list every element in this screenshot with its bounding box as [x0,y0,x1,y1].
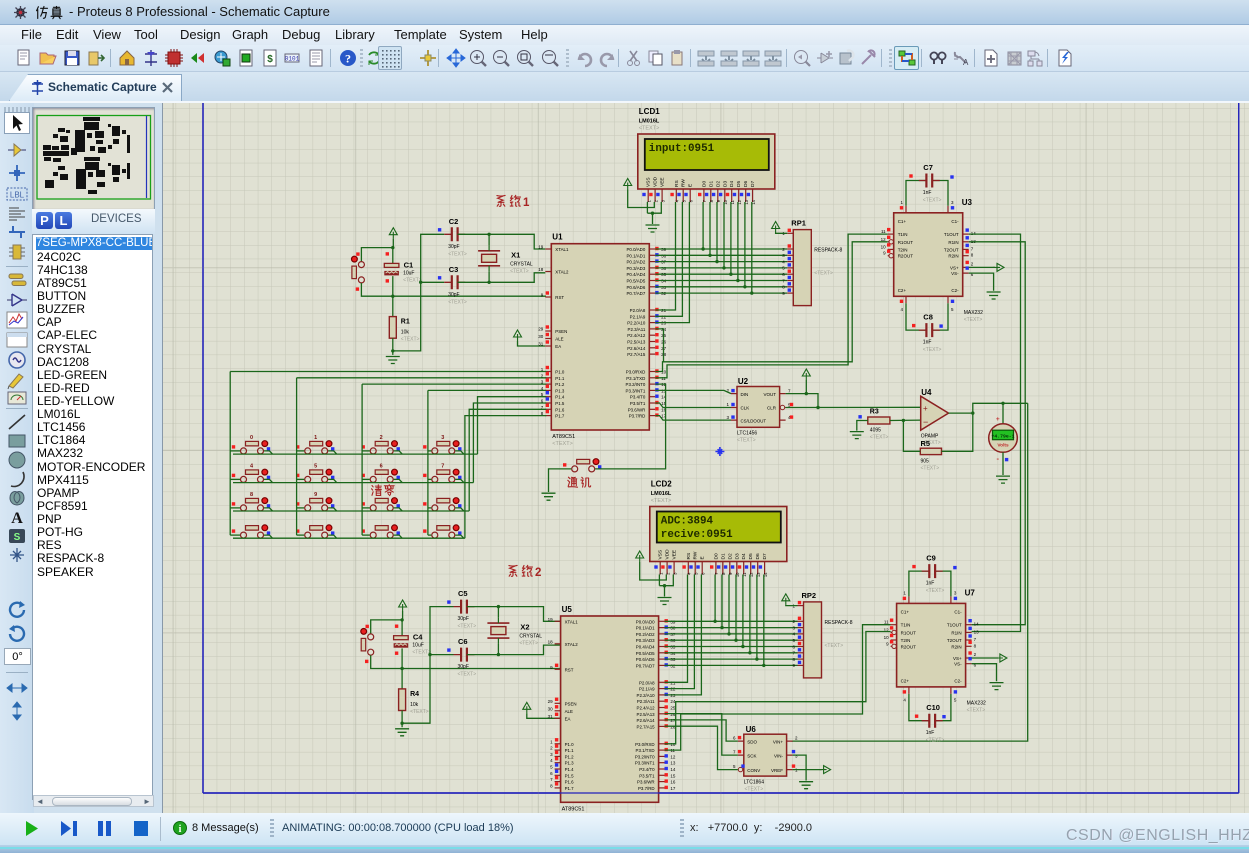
svg-text:−: − [923,417,928,427]
svg-text:D7: D7 [750,181,756,187]
wire key r1c3 left [362,450,370,452]
wire U5 P2.7 to U6 CONV [665,726,738,769]
wire C8 right [932,303,948,330]
wire LCD1 VDD [628,190,655,208]
wire key r4c3 left [362,534,370,536]
wire button bottom sys2 [371,655,402,668]
wire C10 right [935,694,951,721]
mcu U5 AT89C51 [548,605,676,819]
svg-text:LM016L: LM016L [651,491,672,497]
svg-text:VS-: VS- [951,271,959,276]
svg-text:13: 13 [670,761,676,766]
button keypad r1c3 [362,435,400,454]
svg-text:P1.7: P1.7 [555,414,565,419]
svg-text:P2.5/A13: P2.5/A13 [627,340,646,345]
svg-text:P2.5/A13: P2.5/A13 [637,712,656,717]
svg-text:P3.4/T0: P3.4/T0 [630,395,646,400]
svg-text:i: i [179,824,182,835]
wire C7 left [906,181,926,206]
svg-text:SDO: SDO [747,739,757,744]
wire P0.4 bus1 [655,273,787,275]
wire key r2c4 left [428,478,432,480]
wire vcc to junction sys2 [402,611,404,620]
wire C2 right sys2 [467,607,564,622]
svg-text:CS/LDOOUT: CS/LDOOUT [741,418,767,423]
junction D3 bus1 [722,266,725,269]
svg-text:+: + [996,416,1000,423]
svg-text:D4: D4 [741,553,747,559]
button keypad r1c1 [232,435,270,454]
svg-text:29: 29 [538,327,544,332]
wire C bottom sys1 [392,276,394,296]
wire key r3c3 right [394,508,403,511]
wire key r3c2 left [297,507,305,509]
button reset sys1 [352,252,365,290]
power vcc LCD1 [624,179,632,190]
wire xtal bottom sys2 [497,644,499,655]
ic U3 MAX232 [881,198,983,323]
svg-text:<TEXT>: <TEXT> [639,126,659,132]
svg-text:P2.7/A15: P2.7/A15 [627,352,646,357]
svg-text:P2.1/A9: P2.1/A9 [630,314,646,319]
wire key r3c2 right [328,508,337,511]
devices header [32,209,155,234]
svg-text:U7: U7 [965,588,976,597]
svg-text:D1: D1 [708,181,714,187]
wire U1 P3.5 to U2 CLK [655,403,731,408]
svg-text:<TEXT>: <TEXT> [519,641,538,647]
status bar [0,813,1249,845]
svg-text:P1.2: P1.2 [565,754,575,759]
R3 blue square [858,415,861,418]
wire LCD1 D4 [730,202,732,274]
voltmeter [989,416,1018,463]
capacitor C10 [915,703,944,744]
left tool column [0,103,34,815]
svg-text:X1: X1 [511,250,520,259]
ground LCD1 [646,225,660,232]
junction [400,618,403,621]
junction D5 bus1 [736,279,739,282]
wire out to U6 VIN+ [792,403,1028,741]
ground U6 VIN- [799,782,813,789]
svg-text:10: 10 [881,244,887,249]
svg-text:<TEXT>: <TEXT> [923,198,942,204]
wire opamp out [949,412,973,414]
svg-text:VS-: VS- [954,662,962,667]
svg-text:RS: RS [674,180,680,187]
wire P0.1 bus1 [655,254,787,256]
svg-text:MAX232: MAX232 [967,700,986,706]
junction [651,212,654,215]
ground R3 [850,432,864,439]
svg-text:P2.0/A8: P2.0/A8 [639,680,655,685]
svg-text:4095: 4095 [870,428,881,434]
svg-text:EA: EA [565,716,571,721]
wire LCD1 VEE [647,202,661,213]
mcu U1 AT89C51 [538,233,666,447]
svg-text:U1: U1 [552,233,563,242]
wire LCD1 gnd stem [652,213,654,224]
svg-text:19: 19 [548,617,554,622]
svg-text:C2-: C2- [954,678,962,683]
svg-text:RST: RST [555,295,564,300]
capacitor C5 [447,589,476,630]
svg-text:T1OUT: T1OUT [944,232,959,237]
wire LCD2 RW to U5 P2.1 [665,575,695,689]
svg-text:U5: U5 [562,605,573,614]
wire P0.3 bus1 [655,267,787,269]
power vref U6 [820,766,831,774]
wire LCD2 D2 [728,575,730,634]
svg-text:P2.3/A11: P2.3/A11 [628,327,646,332]
svg-text:P0.2/AD2: P0.2/AD2 [627,260,646,265]
svg-text:D4: D4 [729,181,735,187]
svg-text:D2: D2 [727,553,733,559]
wire junction to button top sys1 [361,248,392,262]
wire P0.4 bus2 [665,646,798,648]
svg-text:P3.2/INT0: P3.2/INT0 [626,382,646,387]
svg-text:VSS: VSS [646,177,652,187]
wire LCD2 D5 [749,575,751,653]
wire comm left [549,469,572,492]
wire key r2c2 right [328,479,337,482]
wire keypad col2 [296,378,298,535]
svg-text:C6: C6 [458,637,468,646]
svg-text:R4: R4 [410,691,419,698]
wire C bottom sys2 [401,648,403,668]
svg-text:P2.2/A10: P2.2/A10 [627,321,646,326]
svg-text:P3.5/T1: P3.5/T1 [639,773,655,778]
wire P1.1 to col2 [297,377,547,379]
junction [663,584,666,587]
power vcc LCD2 [636,551,644,562]
left panel scrollbar [33,795,154,807]
wire keypad col3 [361,384,363,535]
svg-text:RW: RW [693,551,699,559]
svg-text:P3.4/T0: P3.4/T0 [639,767,655,772]
svg-text:P3.0/RXD: P3.0/RXD [635,742,655,747]
svg-text:LCD1: LCD1 [639,107,660,116]
wire LCD2 D3 [735,575,737,641]
wire RST net sys2 [402,668,564,670]
wire key r4c4 right [455,535,464,538]
junction [400,667,403,670]
svg-text:P1.1: P1.1 [555,376,565,381]
label system1 xitong1 [497,195,530,209]
toolbar [0,45,1249,72]
menu bar [0,25,1249,45]
junction [400,722,403,725]
wire U1 P2.3 stub [655,329,663,362]
wire key r4c4 left [428,534,432,536]
button keypad r4c3 [362,525,400,538]
wire LCD1 D6 [744,202,746,287]
wire RST net sys1 [393,295,546,297]
svg-text:<TEXT>: <TEXT> [967,707,986,713]
wire LCD1 D1 [709,202,711,255]
grid major lines [163,103,1249,816]
svg-text:1nF: 1nF [926,581,935,587]
svg-text:<TEXT>: <TEXT> [510,268,529,274]
svg-text:<TEXT>: <TEXT> [410,709,429,715]
svg-text:P3.7/RD: P3.7/RD [629,414,646,419]
svg-text:12: 12 [881,237,887,242]
button keypad r4c4 [423,525,461,538]
resistor R4 [399,689,429,715]
svg-text:P1.3: P1.3 [555,388,565,393]
svg-text:VDD: VDD [665,549,671,560]
wire junction to button top sys2 [371,620,402,634]
wire P1.5 to row2 [473,403,546,483]
button keypad r3c1 [232,492,270,511]
wire key r1c3 right [394,451,403,454]
svg-text:RP2: RP2 [802,591,817,600]
svg-text:P2.4/A12: P2.4/A12 [627,333,646,338]
svg-text:S: S [14,532,21,543]
wire R bottom to gnd sys2 [401,711,403,728]
svg-text:5: 5 [314,463,317,469]
svg-text:P0.0/AD0: P0.0/AD0 [636,619,655,624]
junction D6 bus2 [755,657,758,660]
wire key r3c3 left [362,507,370,509]
svg-text:DIN: DIN [741,392,749,397]
wire U3 R1IN to U7 T1OUT [969,242,1025,625]
junction D0 bus2 [713,620,716,623]
svg-text:7: 7 [441,463,444,469]
svg-text:2: 2 [380,435,383,441]
wire LCD1 D5 [737,202,739,281]
svg-text:C7: C7 [923,163,933,172]
svg-text:P0.6/AD6: P0.6/AD6 [636,657,655,662]
svg-text:P3.1/TXD: P3.1/TXD [626,376,645,381]
svg-text:MAX232: MAX232 [964,310,983,316]
wire LCD2 VSS [658,575,660,586]
svg-text:8: 8 [250,492,253,498]
wire U2 VOUT [786,394,818,408]
svg-text:P0.7/AD7: P0.7/AD7 [627,291,646,296]
ground reset sys1 [386,357,400,364]
svg-text:C9: C9 [926,554,936,563]
svg-text:U4: U4 [921,388,932,397]
wire U3 T1OUT to U7 R1IN [969,234,1021,631]
svg-text:16: 16 [670,780,676,785]
svg-text:RESPACK-8: RESPACK-8 [814,248,842,254]
wire LCD1 D0 [702,202,704,249]
svg-text:LBL: LBL [10,191,25,200]
svg-text:12: 12 [670,754,676,759]
label C9 squares [953,566,956,569]
svg-text:LTC1864: LTC1864 [744,780,764,786]
svg-text:CLR: CLR [767,406,777,411]
svg-text:<TEXT>: <TEXT> [814,271,833,277]
svg-text:recive:0951: recive:0951 [661,529,733,541]
svg-text:R2OUT: R2OUT [898,254,914,259]
svg-text:CONV: CONV [747,768,760,773]
wire EA sys1 [518,341,546,346]
svg-text:P1.1: P1.1 [565,748,575,753]
svg-text:Volts: Volts [997,443,1009,449]
wire LCD2 D1 [721,575,723,628]
svg-text:PSEN: PSEN [565,701,577,706]
wire EA sys2 [527,713,564,718]
junction D3 bus2 [734,639,737,642]
svg-text:30pF: 30pF [448,292,459,298]
capacitor C4 [394,625,431,656]
svg-text:AT89C51: AT89C51 [562,806,585,812]
svg-text:D6: D6 [743,181,749,187]
svg-text:P0.3/AD3: P0.3/AD3 [627,266,646,271]
svg-text:P3.1/TXD: P3.1/TXD [636,748,655,753]
wire key r4c2 right [328,535,337,538]
power vcc U2 [802,369,810,380]
wire LCD1 E to U1 P2.2 [655,202,689,323]
svg-text:19: 19 [538,245,544,250]
svg-text:C1-: C1- [954,609,962,614]
svg-text:RST: RST [565,667,574,672]
svg-text:P1.3: P1.3 [565,761,575,766]
svg-text:R1IN: R1IN [948,240,958,245]
resistor pack RP2 [792,591,852,678]
wire key r1c2 right [328,451,337,454]
power vcc reset sys2 [399,600,407,611]
wire P0.2 bus2 [665,633,798,635]
wire LCD2 D0 [714,575,716,622]
wire LCD1 VSS [646,202,648,213]
svg-text:LM016L: LM016L [639,119,660,125]
svg-text:P0.7/AD7: P0.7/AD7 [636,663,655,668]
svg-text:31: 31 [548,714,554,719]
button keypad r3c3 [362,498,400,511]
wire U6 VIN- [793,755,807,780]
wire P0.2 bus1 [655,261,787,263]
svg-text:14: 14 [670,767,676,772]
wire C8 left [906,303,926,330]
wire button bottom sys1 [361,283,392,296]
wire P0.6 bus2 [665,658,798,660]
svg-text:PSEN: PSEN [555,329,567,334]
wire key r2c3 left [362,478,370,480]
junction [971,411,974,414]
wire C9 left [909,571,929,596]
power vcc EA sys1 [514,330,522,341]
svg-text:XTAL1: XTAL1 [555,247,569,252]
svg-text:P1.4: P1.4 [555,395,565,400]
svg-text:D2: D2 [715,181,721,187]
wire U1 P3.1 to U3 T1IN [655,234,887,378]
wire key r1c4 right [455,451,464,454]
wire P0.5 bus2 [665,652,798,654]
svg-text:<TEXT>: <TEXT> [401,337,420,343]
svg-text:0: 0 [250,435,253,441]
ground reset sys2 [395,729,409,736]
svg-text:D0: D0 [701,181,707,187]
wire RP2 pin1 [786,604,798,607]
button keypad r2c4 [423,463,461,482]
wire key r4c3 right [394,535,403,538]
svg-text:9: 9 [314,492,317,498]
wire P0.0 bus1 [655,248,787,250]
svg-text:P2.4/A12: P2.4/A12 [637,706,656,711]
wire LCD2 RS to U5 P2.0 [665,575,688,683]
svg-text:P2.6/A14: P2.6/A14 [627,346,646,351]
svg-text:R2OUT: R2OUT [901,644,917,649]
svg-text:P3.2/INT0: P3.2/INT0 [635,754,655,759]
svg-text:D1: D1 [720,553,726,559]
svg-text:6: 6 [380,463,383,469]
svg-text:VDD: VDD [653,176,659,187]
svg-text:R1IN: R1IN [951,630,961,635]
svg-text:<TEXT>: <TEXT> [926,588,945,594]
wire U5 P2.5 to U6 SCK [665,714,738,756]
wire C2 right sys1 [458,234,546,249]
resistor pack RP1 [782,219,842,306]
svg-text:10uF: 10uF [412,643,423,649]
svg-text:D3: D3 [722,181,728,187]
svg-text:30: 30 [548,706,554,711]
svg-text:10uF: 10uF [403,270,414,276]
wire P1.0 to col1 [230,371,546,373]
capacitor C1 [384,252,421,283]
ic U7 MAX232 [884,588,986,713]
junction D7 bus2 [762,664,765,667]
wire U1 P3.3 to U2 DIN [655,390,731,393]
svg-text:P2.2/A10: P2.2/A10 [637,693,656,698]
svg-text:R3: R3 [870,409,879,416]
svg-text:VS+: VS+ [953,656,962,661]
svg-text:D0: D0 [713,553,719,559]
svg-text:E: E [700,556,706,559]
svg-text:D3: D3 [734,553,740,559]
wire LCD1 RS to U1 P2.0 [655,202,675,310]
wire LCD2 D7 [763,575,765,666]
junction [428,653,431,656]
svg-text:AT89C51: AT89C51 [552,434,575,440]
wire key r4c1 right [264,535,273,538]
wire U5 P3.1 to U7 T1IN [665,625,891,750]
wire C3 right sys1 [458,273,546,283]
ground voltmeter [996,476,1010,483]
svg-text:VIN+: VIN+ [773,739,784,744]
button keypad r3c2 [296,492,334,511]
svg-text:P3.3/INT1: P3.3/INT1 [635,761,655,766]
svg-text:<TEXT>: <TEXT> [651,498,671,504]
capacitor C6 [447,637,476,678]
wire LCD2 VEE [659,575,673,586]
svg-text:<TEXT>: <TEXT> [964,317,983,323]
svg-text:P0.5/AD5: P0.5/AD5 [627,279,646,284]
svg-text:R5: R5 [921,439,931,448]
svg-text:R1: R1 [401,319,410,326]
junction [487,233,490,236]
label clear qingling [372,485,395,496]
wire key r3c4 right [455,508,464,511]
svg-text:<TEXT>: <TEXT> [921,466,940,472]
svg-text:<TEXT>: <TEXT> [737,438,756,444]
svg-text:ALE: ALE [565,709,573,714]
wire key r2c2 left [297,478,305,480]
svg-text:A: A [11,510,23,527]
svg-text:P3.0/RXD: P3.0/RXD [626,370,646,375]
power vcc reset sys1 [389,228,397,239]
svg-text:<TEXT>: <TEXT> [923,347,942,353]
svg-text:P0.1/AD1: P0.1/AD1 [636,626,655,631]
wire C3 right sys2 [467,645,564,655]
svg-text:U2: U2 [738,377,749,386]
resistor R1 [389,317,419,343]
svg-text:C3: C3 [449,265,459,274]
svg-text:U3: U3 [962,198,973,207]
